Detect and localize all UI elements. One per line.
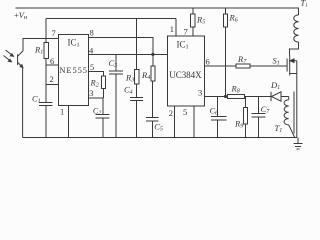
svg-text:R7: R7 — [237, 54, 247, 65]
pin 1 NE555 — [60, 107, 64, 117]
ground bottom rail — [23, 137, 297, 139]
svg-text:R3: R3 — [125, 73, 134, 84]
pin 5 IC2 — [183, 107, 187, 117]
svg-text:2: 2 — [169, 108, 173, 118]
capacitor C1 — [39, 103, 53, 138]
label S1 — [273, 56, 280, 67]
wire: IC2 pin6 gate line — [205, 65, 287, 67]
svg-text:IC1: IC1 — [68, 37, 80, 48]
ground symbol — [294, 138, 303, 150]
wire: R5 top rail to IC2 pin7 — [192, 8, 194, 36]
label T1 top — [301, 0, 309, 9]
label +Vн — [14, 10, 28, 21]
svg-text:R6: R6 — [229, 13, 238, 24]
label R9 — [234, 119, 243, 130]
wire: IC2 pin3 sense line — [205, 96, 271, 98]
pin 4 NE555 — [89, 46, 94, 56]
label IC2 — [177, 40, 189, 51]
capacitor C6 — [211, 97, 227, 138]
node junction R6/R8 — [224, 95, 227, 98]
label IC1 — [68, 37, 80, 48]
label R8 — [231, 84, 240, 95]
svg-text:T1: T1 — [275, 123, 283, 134]
label C4 — [124, 85, 133, 96]
label C6 — [210, 105, 219, 116]
svg-text:1: 1 — [60, 107, 64, 117]
svg-text:2: 2 — [50, 74, 54, 84]
wire: IC2 pin1 to NE555 R1 net (horizontal y=18.5) — [46, 18, 176, 20]
resistor R3 — [135, 69, 139, 84]
svg-text:D1: D1 — [270, 80, 280, 91]
resistor R2 — [101, 76, 105, 89]
wire: vertical x=46 from y18.5 through R1 net — [45, 19, 47, 43]
label C5 — [154, 122, 163, 133]
wire: R4 bottom to C5 — [151, 81, 153, 118]
pin 2 NE555 — [50, 74, 54, 84]
pin 5 NE555 — [90, 62, 94, 72]
wire: IC2 pin2 to ground — [174, 106, 176, 138]
wire: R3 top from y18.5 line — [136, 19, 138, 70]
svg-text:R5: R5 — [196, 15, 205, 26]
svg-text:7: 7 — [184, 27, 188, 37]
capacitor C4 — [130, 97, 143, 137]
diode D1 — [271, 92, 289, 101]
IC IC2 UC384X box — [168, 36, 205, 106]
wire: R1 bottom to pin6 stub and down to pin2/C1 — [46, 59, 58, 103]
node junction pin8/pin4 — [151, 53, 154, 56]
svg-text:C6: C6 — [210, 105, 219, 116]
svg-text:UC384X: UC384X — [169, 70, 202, 80]
wire: NE555 pin8 to pin4 net — [89, 37, 153, 54]
label C1 — [32, 93, 41, 104]
pin 7 IC2 — [184, 27, 188, 37]
label R7 — [237, 54, 247, 65]
label R5 — [196, 15, 205, 26]
wire: NE555 pin7 line to phototransistor collector — [23, 38, 59, 51]
label R4 — [141, 70, 150, 81]
svg-text:+Vн: +Vн — [14, 10, 28, 21]
svg-text:R1: R1 — [34, 44, 43, 55]
wire: R2 bottom to NE555 pin3 stub — [89, 89, 104, 98]
phototransistor VT1 — [18, 51, 23, 138]
svg-text:6: 6 — [50, 56, 54, 66]
svg-text:C1: C1 — [32, 93, 41, 104]
svg-text:C2: C2 — [93, 106, 101, 116]
wire: primary bottom to MOSFET drain — [290, 42, 299, 55]
wire: NE555 pin1 to ground rail — [68, 105, 70, 137]
resistor R5 — [191, 14, 195, 27]
svg-text:S1: S1 — [273, 56, 280, 67]
svg-text:R8: R8 — [231, 84, 240, 95]
light arrow 1 — [6, 50, 14, 56]
pin 3 NE555 — [89, 88, 93, 98]
pin 2 IC2 — [169, 108, 173, 118]
svg-text:7: 7 — [52, 28, 56, 38]
wire: NE555 pin2 stub — [46, 84, 58, 86]
svg-text:C5: C5 — [154, 122, 163, 133]
pin 6 IC2 — [206, 57, 210, 67]
svg-text:T1: T1 — [301, 0, 308, 9]
resistor R6 — [223, 14, 227, 27]
svg-text:R9: R9 — [234, 119, 243, 130]
label C3 — [109, 58, 118, 69]
svg-text:5: 5 — [183, 107, 187, 117]
label T1 bottom — [275, 123, 283, 134]
label R1 — [34, 44, 43, 55]
light arrow 2 — [4, 56, 12, 62]
capacitor C2 — [95, 98, 109, 138]
label NE555 — [59, 66, 87, 75]
label R3 — [125, 73, 134, 84]
pin 6 NE555 — [50, 56, 54, 66]
pin 7 NE555 — [52, 28, 56, 38]
wire: IC2 pin1 drop from y18.5 — [175, 19, 177, 37]
transformer T1 secondary winding — [284, 97, 295, 138]
transformer T1 primary winding — [294, 15, 299, 42]
wire: R3 bottom to C4 — [136, 84, 138, 98]
svg-text:8: 8 — [90, 28, 94, 38]
pin 3 IC2 — [198, 88, 202, 98]
pin 1 IC2 — [170, 24, 174, 34]
label C7 — [261, 104, 271, 115]
resistor R1 — [44, 43, 48, 59]
wire: NE555 pin4 line to IC2 left — [89, 53, 168, 55]
svg-text:R4: R4 — [141, 70, 150, 81]
svg-text:R2: R2 — [90, 78, 99, 89]
svg-text:1: 1 — [170, 24, 174, 34]
svg-text:5: 5 — [90, 62, 94, 72]
label R2 — [90, 78, 99, 89]
node +Vн top supply rail — [15, 8, 298, 15]
wire: R6 drop from top rail to sense node — [225, 8, 227, 96]
resistor R9 — [244, 97, 248, 138]
svg-text:C7: C7 — [261, 104, 271, 115]
wire: junction to R4 top — [152, 54, 154, 66]
svg-text:IC1: IC1 — [177, 40, 189, 51]
label R6 — [229, 13, 238, 24]
svg-text:C4: C4 — [124, 85, 133, 96]
svg-text:NE555: NE555 — [59, 66, 87, 75]
label C2 — [93, 106, 101, 116]
transistor S1 MOSFET — [287, 56, 297, 138]
svg-text:3: 3 — [89, 88, 93, 98]
svg-text:3: 3 — [198, 88, 202, 98]
capacitor C3 — [109, 54, 123, 137]
resistor R4 — [151, 66, 155, 81]
transformer T1 core — [293, 92, 295, 134]
resistor R7 — [236, 64, 250, 68]
label D1 — [270, 80, 280, 91]
IC IC1 NE555 box — [59, 34, 89, 105]
label UC384X — [169, 70, 202, 80]
resistor R8 — [228, 94, 245, 98]
capacitor C5 — [146, 118, 159, 138]
pin 8 NE555 — [90, 28, 94, 38]
capacitor C7 — [252, 97, 266, 138]
wire: NE555 pin5 stub to R2 top — [89, 72, 104, 76]
wire: IC2 pin5 to ground — [193, 106, 195, 138]
svg-text:6: 6 — [206, 57, 210, 67]
